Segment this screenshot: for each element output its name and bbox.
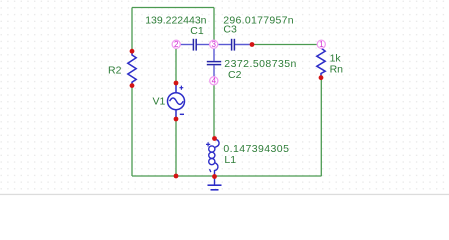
svg-text:C1: C1	[190, 25, 204, 37]
separator line at bottom of canvas	[0, 194, 449, 195]
capacitor C1	[180, 44, 209, 46]
junction dot Rn bottom	[319, 75, 324, 80]
resistor Rn	[317, 48, 325, 78]
wire left vertical	[131, 8, 133, 177]
wire right vertical (node1 to bottom)	[320, 78, 322, 176]
junction dot C3 right	[250, 42, 255, 47]
svg-text:1: 1	[319, 40, 324, 49]
wire node3 branch top	[213, 8, 215, 42]
node 2	[172, 40, 180, 49]
junction dot R2 bottom	[130, 83, 135, 88]
junction dot V1 top	[174, 81, 179, 86]
voltage source V1	[168, 83, 185, 119]
svg-text:4: 4	[212, 77, 217, 86]
wire bottom horizontal	[132, 175, 322, 177]
V1 minus mark	[180, 113, 184, 115]
svg-text:V1: V1	[153, 96, 166, 108]
L1 plus mark	[206, 142, 210, 146]
resistor R2	[128, 51, 136, 85]
V1 plus mark	[180, 86, 184, 90]
svg-text:Rn: Rn	[330, 64, 344, 76]
node 4	[210, 77, 218, 86]
svg-text:3: 3	[211, 40, 216, 49]
wire node4 to L1	[213, 85, 215, 139]
node 3	[210, 40, 218, 49]
capacitor C3	[219, 44, 253, 46]
junction dot R2 top	[130, 49, 135, 54]
capacitor C2	[213, 49, 215, 77]
inductor L1	[209, 139, 219, 177]
wire top horizontal	[132, 7, 214, 9]
ground	[208, 177, 222, 190]
junction dot L1 top	[212, 136, 217, 141]
wire node2 down to V1	[175, 49, 177, 83]
junction dot V1 bottom	[174, 117, 179, 122]
junction dot L1 bottom / ground	[212, 174, 217, 179]
svg-text:2: 2	[174, 40, 179, 49]
svg-text:R2: R2	[108, 64, 122, 76]
node 1	[317, 40, 325, 49]
svg-text:L1: L1	[224, 154, 236, 166]
svg-text:C2: C2	[228, 69, 242, 81]
junction dot V1 branch bottom	[174, 174, 179, 179]
svg-text:C3: C3	[223, 24, 237, 36]
wire V1 to bottom	[175, 119, 177, 176]
wire C3 to node1	[252, 44, 318, 46]
L1 minus mark	[210, 169, 211, 172]
